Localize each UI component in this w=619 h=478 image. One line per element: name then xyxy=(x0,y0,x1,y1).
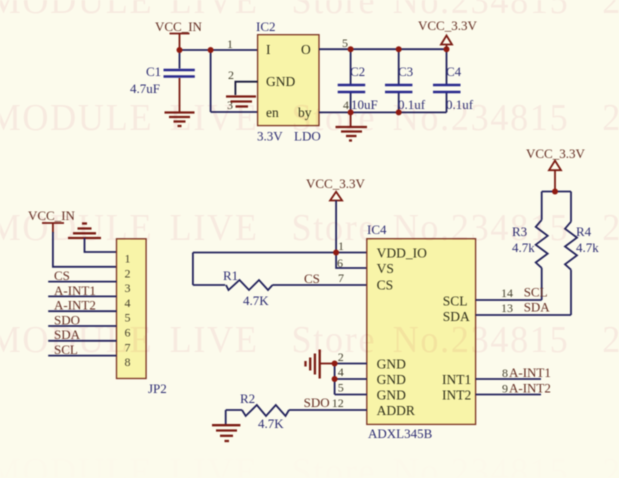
svg-text:CS: CS xyxy=(304,271,320,286)
svg-text:4: 4 xyxy=(125,296,131,310)
svg-text:4.7uF: 4.7uF xyxy=(130,81,160,96)
svg-text:I: I xyxy=(266,42,271,57)
svg-text:2: 2 xyxy=(125,266,131,280)
svg-text:C1: C1 xyxy=(146,64,161,79)
svg-text:SCL: SCL xyxy=(524,285,548,300)
svg-text:ADDR: ADDR xyxy=(377,403,415,418)
svg-text:MODULE LIVE Store No.234815: MODULE LIVE Store No.234815 2 xyxy=(0,207,619,249)
svg-text:GND: GND xyxy=(377,372,406,387)
svg-text:ADXL345B: ADXL345B xyxy=(368,426,433,441)
svg-text:GND: GND xyxy=(266,74,295,89)
svg-text:VCC_3.3V: VCC_3.3V xyxy=(526,146,585,161)
svg-text:MODULE LIVE Store No.234815: MODULE LIVE Store No.234815 2 xyxy=(0,319,619,361)
svg-text:12: 12 xyxy=(332,396,344,410)
svg-text:14: 14 xyxy=(501,286,513,300)
svg-text:MODULE LIVE Store No.234815: MODULE LIVE Store No.234815 2 xyxy=(0,0,619,22)
svg-text:GND: GND xyxy=(377,388,406,403)
svg-text:1: 1 xyxy=(125,252,131,266)
svg-text:3: 3 xyxy=(125,281,131,295)
svg-text:INT1: INT1 xyxy=(442,372,471,387)
svg-text:O: O xyxy=(301,42,311,57)
svg-text:CS: CS xyxy=(377,278,394,293)
svg-text:SCL: SCL xyxy=(443,294,468,309)
svg-text:INT2: INT2 xyxy=(442,388,471,403)
svg-text:R1: R1 xyxy=(223,268,238,283)
svg-text:SDO: SDO xyxy=(304,395,330,410)
svg-text:R2: R2 xyxy=(240,391,255,406)
svg-text:MODULE LIVE Store No.234815: MODULE LIVE Store No.234815 2 xyxy=(0,97,619,139)
svg-text:VCC_3.3V: VCC_3.3V xyxy=(306,176,365,191)
svg-text:8: 8 xyxy=(502,366,508,380)
svg-text:5: 5 xyxy=(338,381,344,395)
svg-text:VS: VS xyxy=(377,261,394,276)
svg-text:4: 4 xyxy=(338,365,344,379)
svg-text:6: 6 xyxy=(337,256,343,270)
svg-text:JP2: JP2 xyxy=(148,381,167,396)
svg-text:MODULE LIVE Store No.234815: MODULE LIVE Store No.234815 2 xyxy=(0,451,619,478)
svg-text:9: 9 xyxy=(502,382,508,396)
svg-text:4.7K: 4.7K xyxy=(243,293,269,308)
svg-text:SDA: SDA xyxy=(524,300,551,315)
svg-text:C4: C4 xyxy=(446,64,462,79)
svg-text:A-INT1: A-INT1 xyxy=(509,365,551,380)
svg-text:1: 1 xyxy=(227,37,233,51)
svg-text:CS: CS xyxy=(54,268,70,283)
svg-text:2: 2 xyxy=(228,68,234,82)
svg-text:7: 7 xyxy=(338,271,344,285)
svg-text:A-INT2: A-INT2 xyxy=(54,298,96,313)
svg-text:C3: C3 xyxy=(398,64,413,79)
svg-text:5: 5 xyxy=(342,36,348,50)
svg-text:A-INT1: A-INT1 xyxy=(54,283,96,298)
svg-text:4.7K: 4.7K xyxy=(258,416,284,431)
svg-text:A-INT2: A-INT2 xyxy=(509,381,551,396)
svg-text:13: 13 xyxy=(501,301,513,315)
svg-text:C2: C2 xyxy=(350,64,365,79)
